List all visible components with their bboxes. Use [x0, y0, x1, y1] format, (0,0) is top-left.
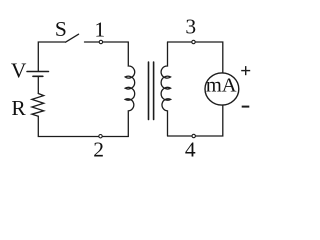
- battery V: [27, 72, 49, 77]
- svg-text:1: 1: [94, 17, 105, 41]
- svg-text:mA: mA: [206, 74, 237, 96]
- transformer secondary winding: [161, 42, 171, 136]
- resistor R: [32, 94, 44, 117]
- svg-text:R: R: [11, 96, 26, 120]
- wire node 4 to secondary bottom: [168, 135, 192, 137]
- ammeter meter: [205, 73, 239, 105]
- wire resistor to bottom-left corner: [38, 116, 98, 136]
- polarity +: [241, 66, 250, 75]
- polarity minus: [242, 106, 250, 108]
- transformer primary winding: [125, 42, 135, 137]
- wire switch to node 1: [85, 41, 99, 43]
- switch S: [66, 34, 79, 42]
- node 2: [99, 135, 102, 138]
- svg-text:S: S: [55, 17, 67, 41]
- wire secondary top to node 3: [168, 41, 192, 43]
- wire node 2 to bottom-right corner: [103, 136, 129, 138]
- transformer core: [149, 62, 154, 120]
- wire node 3 to ammeter: [195, 42, 223, 73]
- node 3: [192, 40, 195, 43]
- svg-text:3: 3: [185, 14, 196, 38]
- node 4: [192, 134, 195, 137]
- wire node 1 to top-right corner: [103, 41, 128, 43]
- wire battery to resistor: [37, 76, 39, 93]
- wire ammeter to node 4: [195, 105, 222, 136]
- wire top-left segment: [38, 42, 65, 71]
- svg-text:4: 4: [185, 138, 196, 162]
- svg-text:V: V: [11, 59, 27, 83]
- svg-text:2: 2: [93, 138, 104, 162]
- node 1: [99, 40, 102, 43]
